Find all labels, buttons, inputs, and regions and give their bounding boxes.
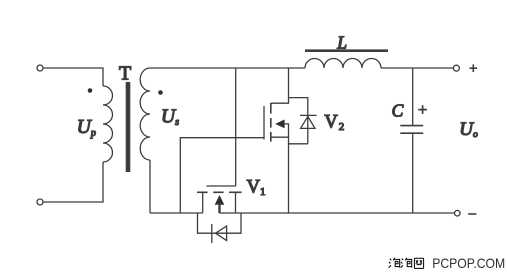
V2 bulk lead	[284, 124, 289, 137]
svg-text:PCPOP.COM: PCPOP.COM	[432, 256, 505, 271]
diode bottom branch	[289, 143, 308, 145]
wire: secondary bottom to rail	[149, 160, 151, 213]
wire: bottom rail left	[150, 212, 203, 214]
watermark 泡泡网 glyph 2	[401, 258, 412, 268]
svg-text:V1: V1	[247, 178, 266, 199]
terminal: output +	[453, 65, 459, 71]
terminal: output -	[455, 210, 461, 216]
V1 bulk leg	[218, 203, 220, 213]
wire: V2 gate drive to bottom rail	[180, 138, 264, 213]
polarity dot primary	[88, 88, 93, 93]
V2 gate bar	[263, 106, 265, 140]
svg-text:Us: Us	[161, 107, 179, 129]
cap top lead	[412, 68, 414, 126]
watermark 泡泡网 glyph 3	[414, 258, 423, 268]
secondary winding Us	[140, 68, 150, 160]
V2 channel segment top	[270, 103, 272, 114]
diode branch wire	[198, 213, 242, 233]
label - output	[468, 213, 476, 215]
inductor core bar	[305, 49, 388, 52]
primary winding Up	[103, 86, 113, 162]
V2 source lead	[271, 137, 289, 213]
transformer core	[126, 82, 131, 172]
svg-text:Up: Up	[77, 117, 96, 139]
wire: rail to + terminal	[381, 67, 454, 69]
diode cathode bar	[300, 114, 317, 116]
V1 source leg	[202, 192, 204, 213]
V1 bulk arrow	[215, 195, 225, 205]
wire: primary bottom lead	[43, 162, 103, 202]
label + output	[470, 64, 478, 72]
cap bottom lead	[412, 133, 414, 213]
diode triangle	[216, 226, 227, 240]
cap bottom plate	[400, 132, 423, 134]
V1 channel segment right	[229, 191, 242, 193]
capacitor C	[400, 68, 423, 213]
wire: top rail	[150, 67, 305, 69]
diode cathode bar	[211, 224, 213, 243]
V2 bulk arrow	[275, 120, 284, 129]
V1 drain leg	[235, 192, 237, 213]
wire: V1 gate drive from top rail	[235, 68, 237, 186]
V1 channel segment left	[197, 191, 208, 193]
inductor L	[305, 59, 381, 69]
body diode of V1	[198, 213, 242, 243]
wire: primary top lead	[43, 68, 103, 86]
diode top branch	[289, 98, 308, 144]
svg-text:T: T	[119, 63, 131, 85]
V1 gate line	[206, 185, 235, 187]
terminal: primary bottom input	[37, 199, 43, 205]
V2 channel segment middle	[270, 118, 272, 128]
MOSFET V2	[264, 68, 289, 213]
MOSFET V1	[197, 186, 242, 213]
V2 drain lead	[271, 68, 289, 103]
body diode of V2	[289, 98, 317, 144]
wire: bottom rail right	[219, 212, 454, 214]
watermark 泡泡网 glyph 1	[389, 258, 400, 268]
svg-text:V2: V2	[324, 113, 344, 134]
label + capacitor	[418, 105, 427, 114]
diode triangle	[301, 116, 315, 128]
svg-text:Uo: Uo	[459, 119, 478, 140]
terminal: primary top input	[37, 65, 43, 71]
V1 channel segment middle	[213, 191, 223, 193]
svg-text:L: L	[336, 33, 347, 53]
polarity dot secondary	[158, 90, 163, 95]
svg-text:C: C	[392, 100, 404, 120]
V2 channel segment bottom	[270, 132, 272, 142]
cap top plate	[400, 125, 423, 127]
